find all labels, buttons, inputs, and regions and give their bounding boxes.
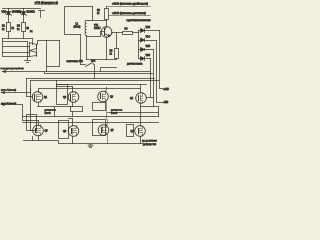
wire driver right bar bbox=[36, 45, 38, 57]
wire driver left vertical bbox=[27, 42, 29, 59]
op-amp U1.2 driver buffer bbox=[30, 51, 37, 57]
wire mid bus right bbox=[108, 107, 159, 123]
wire top bus 2 bbox=[45, 72, 153, 74]
wire emitter junction drop bbox=[116, 33, 118, 49]
mosfet Q7 bbox=[98, 120, 114, 144]
diode VD5 bbox=[139, 46, 154, 52]
mosfet Q4 bbox=[130, 85, 146, 107]
wire top bus 4 bbox=[31, 80, 159, 82]
wire hall drop 2 bbox=[157, 41, 163, 103]
zener diode VD2 bbox=[17, 9, 36, 23]
svg-text:КТ817: КТ817 bbox=[94, 28, 101, 30]
switch SA1 bbox=[81, 63, 95, 79]
box gate block A bbox=[27, 115, 37, 131]
wire branch drop A bbox=[46, 41, 48, 72]
svg-text:VD1: VD1 bbox=[2, 12, 7, 14]
mosfet Q6 bbox=[63, 119, 79, 144]
diode VD6 bbox=[139, 55, 151, 61]
wire emitter out bbox=[113, 32, 123, 34]
box gate block D bbox=[127, 125, 134, 137]
wire Q4 right link bbox=[147, 97, 154, 99]
node junction VD2 tap bbox=[23, 8, 24, 9]
wire harness line 1 bbox=[3, 41, 28, 43]
wire hall return bus bbox=[87, 59, 117, 61]
wire R3 bottom to collector bbox=[106, 20, 108, 27]
wire bottom rail bbox=[24, 141, 156, 144]
ground driver bbox=[25, 59, 31, 63]
svg-text:+5 В (Зарядное у): +5 В (Зарядное у) bbox=[35, 1, 58, 5]
wire top bus 5 bbox=[57, 84, 147, 86]
label shunt A bbox=[45, 110, 57, 115]
ground main bbox=[88, 144, 93, 148]
label +12V sensors bbox=[109, 11, 151, 16]
wire link to charger bus bbox=[101, 68, 117, 72]
label +5V net bbox=[35, 1, 58, 5]
svg-text:VD6: VD6 bbox=[146, 55, 151, 57]
inductor L1 coil bbox=[85, 21, 89, 37]
wire harness line 2 bbox=[3, 46, 30, 48]
wire input bus bbox=[3, 38, 33, 40]
resistor R4 bbox=[123, 29, 133, 35]
wire hall drop 1 bbox=[160, 31, 163, 89]
wire shunt box A drop bbox=[72, 112, 74, 117]
wire harness line 3 bbox=[3, 52, 30, 54]
svg-text:-АКБ: -АКБ bbox=[163, 101, 169, 104]
svg-text:датчик тока: датчик тока bbox=[111, 110, 123, 112]
op-amp U1.1 driver buffer bbox=[30, 43, 37, 51]
box driver block B bbox=[57, 85, 68, 105]
svg-text:VT1: VT1 bbox=[94, 25, 99, 27]
wire gate drop Q1 bbox=[27, 79, 33, 97]
node junction VD1 tap bbox=[8, 8, 9, 9]
svg-text:+12 В (питание драйверов): +12 В (питание драйверов) bbox=[112, 2, 148, 6]
wire hall drop 4 bbox=[150, 59, 152, 98]
mosfet Q8 bbox=[131, 123, 146, 144]
svg-text:(шунт): (шунт) bbox=[111, 113, 117, 115]
wire +5V rail bbox=[3, 8, 41, 10]
box gate block C bbox=[93, 120, 106, 136]
svg-text:к датчикам положения: к датчикам положения bbox=[127, 20, 152, 22]
svg-text:+АКБ: +АКБ bbox=[163, 88, 169, 91]
svg-text:к зарядному устройству: к зарядному устройству bbox=[1, 67, 25, 70]
wire phase B bbox=[2, 104, 29, 121]
wire R3 top bbox=[106, 7, 108, 9]
svg-text:(100м): (100м) bbox=[74, 27, 81, 29]
wire junction to coil top bbox=[93, 20, 107, 22]
svg-text:SA1: SA1 bbox=[91, 60, 96, 63]
wire Q3 drain riser bbox=[106, 88, 108, 89]
mosfet Q3 bbox=[98, 88, 114, 120]
diode VD3 bbox=[139, 27, 160, 33]
box gate block B2 bbox=[59, 121, 69, 139]
resistor R1 bbox=[2, 23, 15, 39]
wire drop to driver bbox=[32, 39, 34, 45]
wire phase A bbox=[2, 89, 31, 94]
resistor R2 bbox=[17, 23, 30, 39]
label L1 bbox=[74, 24, 81, 29]
wire Q1 Q2 source bus bbox=[38, 107, 73, 117]
svg-text:VD5: VD5 bbox=[146, 46, 151, 48]
svg-text:VD3: VD3 bbox=[146, 27, 151, 29]
svg-text:(шунт): (шунт) bbox=[45, 113, 51, 115]
resistor R5 bbox=[110, 49, 119, 59]
label shunt B bbox=[111, 110, 123, 115]
wire left harness vertical bbox=[2, 39, 4, 57]
svg-text:VD2: VD2 bbox=[17, 12, 22, 14]
wire R5 bottom bbox=[116, 59, 118, 60]
wire driver output up bbox=[38, 41, 60, 45]
svg-text:датчики холла: датчики холла bbox=[127, 64, 143, 66]
svg-text:Q1-Q8 IRF2805: Q1-Q8 IRF2805 bbox=[142, 141, 158, 143]
wire harness line 4 bbox=[3, 56, 30, 58]
svg-text:включение 12В: включение 12В bbox=[67, 61, 84, 63]
wire Q2 drain link bbox=[57, 81, 73, 87]
transistor VT1 bbox=[94, 25, 113, 37]
svg-text:VD4: VD4 bbox=[146, 37, 151, 39]
IC box DA1 bbox=[65, 7, 93, 35]
wire coil bottom to base bbox=[87, 32, 105, 60]
svg-text:фаза A (статор): фаза A (статор) bbox=[1, 89, 16, 92]
mosfet Q2 bbox=[63, 87, 79, 107]
wire Q6 drain top bbox=[69, 118, 73, 120]
svg-text:для устр. 24В: для устр. 24В bbox=[143, 144, 157, 146]
wire gate drop Q5 bbox=[31, 81, 33, 131]
wire mid bus 1 bbox=[23, 116, 159, 118]
wire mid bus 2 bbox=[23, 122, 159, 124]
wire Q5 drain riser bbox=[27, 121, 39, 125]
wire drain bus bbox=[39, 88, 141, 90]
shunt box A bbox=[71, 107, 83, 112]
wire box drop to switch bbox=[80, 35, 82, 65]
svg-text:датчик тока: датчик тока bbox=[45, 110, 57, 112]
connector X1 bbox=[39, 11, 45, 18]
svg-text:КС147А: КС147А bbox=[27, 11, 36, 14]
wire branch drop B bbox=[47, 41, 60, 67]
wire top bus 3 bbox=[27, 78, 155, 80]
wire hall drop 3 bbox=[153, 50, 155, 107]
mosfet Q5 bbox=[33, 125, 49, 141]
mosfet Q1 bbox=[32, 89, 48, 107]
wire charger line bbox=[3, 71, 151, 73]
wire box hook to coil bbox=[89, 7, 93, 21]
wire R4 to diode bus bbox=[133, 32, 139, 34]
zener diode VD1 bbox=[2, 9, 21, 23]
diode VD4 bbox=[139, 37, 157, 43]
label +12V drivers bbox=[107, 2, 151, 7]
resistor R3 bbox=[97, 9, 109, 20]
svg-text:+12 В (питание датчиков): +12 В (питание датчиков) bbox=[112, 11, 146, 15]
box shunt block C bbox=[93, 103, 106, 111]
wire diode anode bus bbox=[138, 31, 140, 59]
wire VT1 bottom drop bbox=[106, 37, 108, 60]
